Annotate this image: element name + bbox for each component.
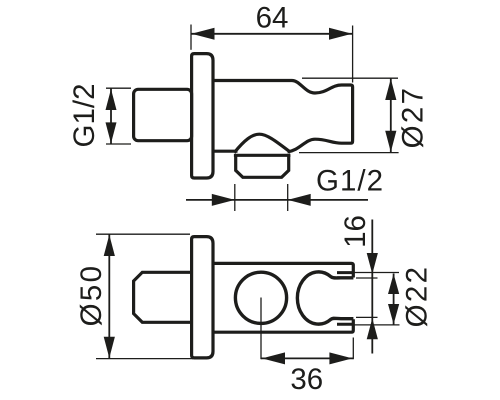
dimension Ø27: bottom extension line: [299, 152, 399, 154]
dimension G1/2 outlet: dimension line with tails: [186, 199, 368, 201]
handset clip C-ring (front view): [297, 272, 353, 324]
dimension Ø50: up arrowhead: [104, 235, 115, 256]
dimension 16: down arrowhead: [367, 253, 378, 274]
dimension 36: right extension line: [352, 338, 354, 360]
dimension 36: left arrowhead: [262, 352, 285, 364]
dimension 64: left extension line: [190, 25, 192, 50]
dimension G1/2 inlet: up arrowhead: [106, 89, 117, 110]
dimension 64: dimension line: [191, 33, 353, 35]
clip extension line inner top: [356, 277, 378, 279]
G1/2 inlet stub (side view): [134, 89, 192, 140]
svg-text:16: 16: [339, 215, 372, 248]
outlet circle (front view): [235, 272, 286, 323]
svg-text:Ø27: Ø27: [397, 86, 430, 149]
svg-text:64: 64: [256, 2, 289, 35]
clip step line top: [337, 271, 353, 274]
dimension Ø22: dimension line: [393, 274, 395, 325]
holder body bottom edge left segment (side view): [213, 150, 238, 153]
dimension G1/2 inlet: bottom tick: [106, 143, 131, 145]
dimension 36: dimension line: [261, 357, 353, 359]
wall flange (side view): [192, 54, 213, 178]
dimension G1/2 inlet: top tick: [106, 87, 131, 89]
dimension 16: dimension line: [371, 220, 373, 354]
dimension Ø50: bottom extension line: [96, 358, 193, 360]
svg-text:36: 36: [290, 363, 323, 396]
dimension Ø50: top extension line: [96, 233, 190, 235]
body square (front view): [134, 272, 192, 322]
centre line of outlet circle: [260, 298, 262, 360]
svg-text:Ø22: Ø22: [401, 265, 434, 328]
dimension 64: right arrowhead: [329, 28, 352, 40]
dimension 64: right extension line: [352, 26, 354, 83]
wall flange (front view): [192, 237, 213, 358]
outlet nut body (side view): [236, 155, 289, 177]
dimension 16: up arrowhead: [367, 318, 378, 339]
outlet nut top edge (side view): [234, 154, 291, 157]
svg-text:Ø50: Ø50: [75, 264, 108, 327]
dimension Ø50: dimension line: [108, 234, 110, 358]
dimension G1/2 outlet: left extension line: [234, 184, 236, 211]
dimension Ø27: dimension line: [390, 78, 392, 152]
dimension Ø22: down arrowhead: [388, 304, 399, 324]
dimension G1/2 outlet: right-pointing arrowhead: [212, 194, 235, 206]
dimension Ø50: down arrowhead: [104, 337, 115, 358]
clip extension line inner bottom: [356, 316, 378, 318]
svg-text:G1/2: G1/2: [68, 84, 101, 148]
dimension Ø22: up arrowhead: [388, 274, 399, 294]
dimension Ø27: top extension line: [302, 77, 398, 79]
clip extension line outer bottom: [354, 324, 400, 326]
holder band bottom edge and lower right edge (front view): [213, 319, 353, 332]
dimension 36: right arrowhead: [329, 352, 352, 364]
dimension Ø27: down arrowhead: [385, 131, 396, 152]
dimension 64: left arrowhead: [192, 28, 215, 40]
dimension G1/2 outlet: right extension line: [287, 184, 289, 211]
dimension G1/2 inlet: down arrowhead: [106, 122, 117, 143]
outlet cone dome (side view): [234, 134, 290, 152]
dimension Ø27: up arrowhead: [385, 79, 396, 100]
holder band top edge and upper right edge (front view): [213, 263, 353, 277]
dimension G1/2 inlet: dimension line: [110, 88, 112, 144]
svg-text:G1/2: G1/2: [316, 165, 384, 198]
clip extension line outer top: [354, 272, 399, 274]
clip step line bottom: [337, 323, 353, 326]
holder body top+right+bottom waist profile (side view): [213, 81, 353, 152]
dimension G1/2 outlet: left-pointing arrowhead: [288, 194, 311, 206]
